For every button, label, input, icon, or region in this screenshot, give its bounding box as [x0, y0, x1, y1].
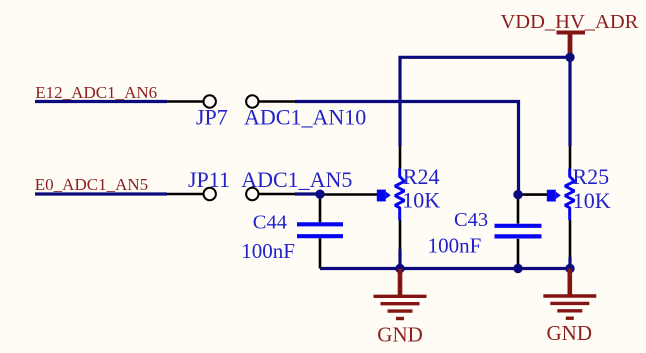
svg-text:C43: C43 — [454, 209, 488, 231]
jumper JP11 pin 2 wire — [259, 193, 295, 196]
svg-text:100nF: 100nF — [241, 239, 295, 263]
junction at node A (ADC1_AN5 / C44 / R24 wiper) — [315, 190, 324, 199]
wire: net E12_ADC1_AN6 label underline — [35, 100, 167, 103]
potentiometer R25 wiper arrow shaft — [547, 190, 556, 202]
svg-text:VDD_HV_ADR: VDD_HV_ADR — [501, 11, 639, 33]
svg-text:GND: GND — [547, 321, 593, 345]
wire: ADC1_AN10 horizontal run with corner down to node at C43/R25 wiper — [295, 102, 519, 194]
potentiometer R24 top pin — [399, 146, 402, 169]
capacitor C43 top pin — [517, 197, 520, 224]
jumper JP7 pin 2 wire — [259, 100, 295, 103]
wire: R24 bottom to ground rail — [398, 249, 401, 269]
ground symbol left: bar 2 — [381, 302, 420, 305]
ground symbol right: bar 1 — [543, 294, 596, 297]
ground symbol right: bar 3 — [557, 309, 582, 312]
capacitor C43 bottom plate — [495, 234, 542, 238]
jumper JP11 pin 2 circle — [246, 188, 258, 200]
wire: VDD rail horizontal with corner down to R24 top — [400, 57, 570, 146]
capacitor C44 bottom plate — [297, 234, 343, 238]
potentiometer R25 body zigzag — [565, 169, 574, 221]
wire: net E0_ADC1_AN5 label underline — [35, 192, 167, 195]
power port VDD_HV_ADR bar — [557, 31, 586, 35]
svg-text:C44: C44 — [253, 211, 287, 233]
svg-text:10K: 10K — [402, 187, 440, 212]
svg-text:R25: R25 — [573, 164, 610, 189]
capacitor C44 bottom pin — [319, 238, 322, 268]
potentiometer R25 wiper wire — [522, 193, 547, 196]
junction at ground rail / R25 — [565, 264, 574, 273]
junction at ground rail / C43 — [513, 264, 522, 273]
jumper JP11 pin 1 wire — [167, 193, 203, 196]
ground symbol left: bar 3 — [388, 309, 413, 312]
jumper JP7 pin 2 circle — [246, 95, 258, 107]
potentiometer R24 wiper arrow head — [386, 192, 391, 199]
junction at VDD node — [565, 53, 574, 62]
wire: JP11 pin to node A — [295, 192, 320, 195]
svg-text:ADC1_AN5: ADC1_AN5 — [241, 167, 352, 192]
ground symbol left: stem — [398, 269, 403, 296]
ground symbol right: bar 2 — [550, 302, 589, 305]
svg-text:10K: 10K — [573, 188, 611, 213]
potentiometer R25 wiper arrow head — [556, 192, 561, 199]
junction at ground rail / R24 — [395, 264, 404, 273]
potentiometer R24 bottom pin — [399, 220, 402, 249]
svg-text:R24: R24 — [403, 164, 440, 189]
potentiometer R25 top pin — [569, 146, 572, 169]
svg-text:GND: GND — [377, 323, 423, 347]
jumper JP11 pin 1 circle — [204, 188, 216, 200]
wire: R25 bottom to ground rail — [568, 257, 571, 269]
wire: VDD node down to R25 top — [568, 57, 571, 146]
junction at node B (ADC1_AN10 / C43 / R25 wiper) — [513, 190, 522, 199]
svg-text:E0_ADC1_AN5: E0_ADC1_AN5 — [35, 175, 148, 194]
capacitor C43 top plate — [495, 224, 542, 228]
svg-text:JP7: JP7 — [196, 104, 228, 129]
jumper JP7 pin 1 circle — [204, 95, 216, 107]
svg-text:100nF: 100nF — [428, 233, 482, 257]
potentiometer R25 bottom pin — [569, 220, 572, 257]
ground symbol left: bar 1 — [374, 295, 427, 298]
capacitor C44 top plate — [297, 222, 343, 226]
potentiometer R24 wiper wire — [325, 193, 378, 196]
ground symbol right: bar 4 — [566, 317, 574, 320]
capacitor C43 bottom pin — [517, 239, 520, 269]
jumper JP7 pin 1 wire — [167, 100, 203, 103]
power port VDD_HV_ADR stem — [568, 34, 573, 57]
potentiometer R24 body zigzag — [395, 169, 404, 221]
ground symbol right: stem — [568, 269, 573, 295]
potentiometer R24 wiper arrow shaft — [377, 190, 386, 202]
capacitor C44 top pin — [319, 196, 322, 222]
svg-text:E12_ADC1_AN6: E12_ADC1_AN6 — [35, 83, 157, 102]
svg-text:JP11: JP11 — [188, 167, 230, 192]
svg-text:ADC1_AN10: ADC1_AN10 — [244, 104, 366, 129]
ground symbol left: bar 4 — [396, 317, 404, 320]
wire: bottom ground rail — [320, 267, 570, 270]
